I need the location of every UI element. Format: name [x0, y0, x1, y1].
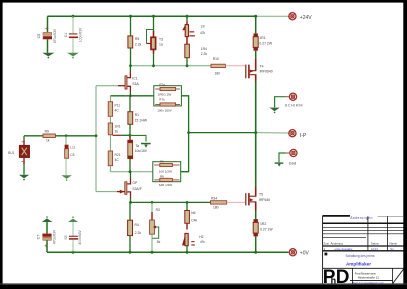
svg-text:C8: C8 [70, 153, 74, 157]
resistor R19 [108, 151, 121, 172]
resistor group R7 box [154, 82, 182, 112]
svg-text:Musterstraße 11: Musterstraße 11 [358, 275, 379, 279]
svg-text:R5: R5 [135, 37, 139, 41]
svg-text:S5: S5 [64, 235, 68, 239]
svg-text:1a: 1a [159, 43, 163, 47]
svg-text:1k: 1k [46, 139, 50, 143]
svg-text:IC1: IC1 [132, 77, 137, 81]
resistor R12 [253, 219, 273, 252]
pad SCHIRM [275, 93, 303, 107]
svg-text:1R2: 1R2 [260, 222, 266, 226]
svg-text:Änderungen: Änderungen [350, 216, 373, 220]
svg-text:0.27 2W: 0.27 2W [259, 42, 272, 46]
svg-text:1k: 1k [115, 130, 119, 134]
wire input horizontal [24, 134, 97, 137]
svg-text:470u/63V: 470u/63V [53, 28, 57, 43]
svg-text:GP: GP [132, 181, 138, 185]
wire lower mid node [110, 170, 152, 173]
capacitor C9 [64, 222, 82, 252]
svg-text:2.2k: 2.2k [201, 52, 208, 56]
ground [61, 175, 71, 181]
pad Gnd [279, 149, 297, 165]
svg-text:S3A: S3A [132, 82, 139, 86]
svg-text:+24V: +24V [300, 15, 312, 21]
svg-text:erste Ausgabe: erste Ausgabe [335, 247, 353, 251]
svg-text:+0V: +0V [300, 251, 310, 257]
connector BU1 [8, 136, 30, 175]
wire gate drive upper [129, 64, 211, 67]
svg-text:T5: T5 [259, 193, 263, 197]
svg-text:R9: R9 [45, 130, 49, 134]
resistor R14 [185, 37, 208, 66]
svg-text:R6: R6 [160, 160, 164, 164]
svg-text:C4k: C4k [191, 218, 197, 222]
pad I-P [289, 130, 307, 139]
ground [67, 53, 79, 59]
svg-text:Zust. Änderung: Zust. Änderung [324, 242, 344, 246]
capacitor C5 [37, 16, 57, 53]
svg-text:IRF640: IRF640 [259, 198, 270, 202]
svg-text:R7b: R7b [159, 98, 165, 102]
resistor R1 [128, 96, 148, 137]
resistor R18 [108, 123, 130, 151]
pad +24V [289, 13, 312, 21]
svg-text:1R0/1 2W: 1R0/1 2W [158, 93, 172, 97]
ground [270, 108, 280, 114]
wire feedback right [181, 96, 190, 172]
ground (inverted) [42, 216, 53, 222]
svg-text:BU1: BU1 [8, 151, 15, 155]
svg-text:T4: T4 [260, 64, 264, 68]
svg-text:Ta: Ta [136, 144, 140, 148]
svg-text:N6: N6 [191, 211, 195, 215]
svg-text:4%: 4% [200, 240, 205, 244]
svg-text:R34: R34 [211, 196, 217, 200]
svg-text:62R 1/2W: 62R 1/2W [159, 183, 173, 187]
svg-text:1R4: 1R4 [201, 47, 207, 51]
svg-text:180: 180 [213, 205, 219, 209]
svg-text:100n/63V: 100n/63V [78, 27, 82, 42]
svg-text:Amplifiaker: Amplifiaker [346, 261, 371, 266]
svg-text:R8: R8 [160, 174, 164, 178]
trimmer TP1 [182, 16, 205, 36]
svg-text:C1: C1 [64, 33, 68, 37]
trimmer TP2 [182, 233, 205, 252]
wire gate T5 (highlighted net) [227, 201, 246, 203]
resistor R11 [253, 16, 273, 58]
svg-text:R7a: R7a [159, 82, 165, 86]
resistor R9 [43, 130, 55, 143]
wire gate T4 (highlighted net) [225, 65, 245, 67]
svg-text:10u/16V: 10u/16V [135, 149, 148, 153]
svg-text:R21: R21 [115, 153, 121, 157]
wire to ground tap [130, 135, 146, 141]
capacitor C1 [64, 16, 82, 53]
svg-text:47k: 47k [200, 31, 206, 35]
svg-text:100 1/2W: 100 1/2W [159, 169, 172, 173]
resistor R6b [185, 202, 198, 229]
resistor R4 [128, 202, 142, 252]
svg-text:Gnd: Gnd [289, 161, 296, 165]
svg-text:SCHIRM: SCHIRM [285, 102, 303, 107]
svg-text:1R1: 1R1 [259, 36, 265, 40]
wire node A [110, 94, 153, 97]
ground (inverted) [68, 216, 78, 222]
svg-text:Schaltung des prima: Schaltung des prima [345, 254, 374, 258]
svg-text:R10: R10 [213, 57, 219, 61]
resistor R13 [211, 196, 227, 209]
capacitor C2 [128, 137, 148, 172]
svg-text:400n/63V: 400n/63V [78, 230, 82, 245]
svg-text:12.04: 12.04 [371, 247, 378, 251]
svg-text:R3: R3 [156, 208, 160, 212]
svg-text:Datum: Datum [371, 242, 380, 246]
svg-text:1R1: 1R1 [115, 124, 121, 128]
wire gate drive lower [129, 201, 210, 204]
ground [42, 53, 54, 59]
svg-text:R1: R1 [135, 113, 139, 117]
svg-text:Sp: Sp [390, 247, 394, 251]
svg-text:Name: Name [390, 242, 398, 246]
ground [19, 175, 29, 181]
title block frame [323, 216, 404, 284]
svg-text:100n 250V: 100n 250V [157, 108, 172, 112]
svg-text:IRF9640: IRF9640 [260, 70, 273, 74]
svg-text:I-P: I-P [300, 133, 307, 139]
resistor R17 [108, 96, 120, 123]
svg-text:P11: P11 [115, 103, 121, 107]
svg-text:4C: 4C [115, 158, 120, 162]
svg-text:R4: R4 [135, 223, 139, 227]
resistor group R8 box [153, 160, 181, 188]
capacitor C7 [37, 222, 57, 252]
svg-text:5k: 5k [157, 240, 161, 244]
svg-text:S3A/F: S3A/F [132, 187, 141, 191]
svg-text:T3: T3 [159, 37, 163, 41]
transistor Q2 [96, 172, 142, 203]
wire top rail +24V [48, 15, 291, 17]
transistor T4 [246, 58, 273, 132]
wire input net vertical [95, 86, 97, 192]
transistor T3 [147, 16, 164, 66]
resistor R5 [128, 16, 142, 66]
wire bottom rail [47, 251, 290, 254]
svg-text:L11: L11 [70, 146, 75, 150]
svg-text:180: 180 [215, 72, 221, 76]
capacitor C11 [65, 136, 76, 175]
logo PD [323, 267, 350, 288]
svg-text:2.2k: 2.2k [135, 42, 142, 46]
svg-text:2.2k: 2.2k [135, 231, 142, 235]
node junction dots top rail [72, 15, 258, 18]
title block texts [324, 216, 398, 285]
trimmer R3 [150, 202, 161, 252]
transistor T5 [246, 133, 270, 220]
pad -24V [289, 249, 309, 257]
svg-text:15 1/4W: 15 1/4W [135, 119, 148, 123]
svg-text:C5: C5 [37, 34, 41, 39]
svg-text:0.27 1W: 0.27 1W [260, 227, 273, 231]
ground [275, 162, 284, 166]
svg-text:C7: C7 [37, 235, 41, 240]
ground [141, 143, 151, 148]
svg-text:4C: 4C [115, 109, 120, 113]
resistor R10 [211, 57, 225, 76]
svg-text:470u/63V: 470u/63V [52, 229, 56, 244]
wire output node [189, 131, 290, 134]
svg-text:H2: H2 [199, 235, 203, 239]
transistor Q1 [96, 66, 139, 96]
